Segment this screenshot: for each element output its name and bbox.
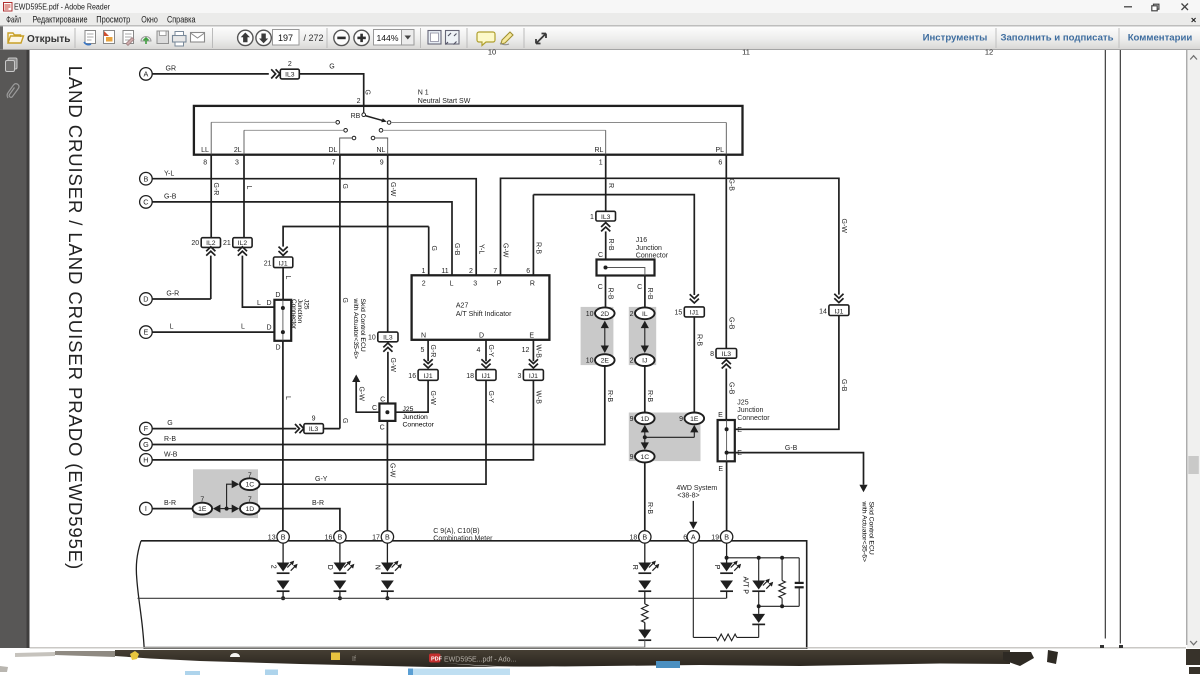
svg-text:G-R: G-R xyxy=(166,291,179,298)
svg-text:2: 2 xyxy=(422,280,426,287)
svg-text:Junction: Junction xyxy=(636,245,662,252)
indicator lamp A/T P (LED) xyxy=(758,558,760,581)
svg-text:B-R: B-R xyxy=(164,500,176,507)
arrows between IL and IJ xyxy=(641,321,649,329)
svg-text:2: 2 xyxy=(630,358,634,365)
wire R-B from IJ down to oval 1D xyxy=(644,366,646,413)
junction connector J25 (middle) body xyxy=(379,404,395,421)
svg-text:1: 1 xyxy=(590,214,594,221)
svg-text:IJ1: IJ1 xyxy=(690,310,699,317)
svg-text:Skid Control ECU: Skid Control ECU xyxy=(868,502,875,555)
svg-text:D: D xyxy=(143,295,148,304)
svg-text:G-W: G-W xyxy=(357,387,364,402)
node F connector circle xyxy=(140,422,153,435)
svg-text:W-B: W-B xyxy=(535,345,542,359)
svg-text:Connector: Connector xyxy=(403,422,435,429)
svg-text:11: 11 xyxy=(441,268,448,275)
svg-text:<38-8>: <38-8> xyxy=(677,493,699,500)
oval terminal 1D xyxy=(240,503,260,515)
svg-text:Connector: Connector xyxy=(636,252,669,259)
svg-text:B: B xyxy=(724,533,729,542)
svg-text:7: 7 xyxy=(248,472,252,479)
meter terminal 13(B) xyxy=(277,531,289,543)
switch contact NL throw xyxy=(371,136,375,140)
svg-text:Connector: Connector xyxy=(290,299,297,330)
svg-text:IL3: IL3 xyxy=(383,335,393,342)
reference text Skid Control ECU with Actuator (bottom right) xyxy=(860,501,874,562)
svg-text:RL: RL xyxy=(594,147,603,154)
svg-text:A/T P: A/T P xyxy=(742,577,749,595)
reference text Skid Control ECU with Actuator (middle left) xyxy=(352,298,366,359)
svg-text:A/T Shift Indicator: A/T Shift Indicator xyxy=(456,311,512,318)
svg-text:C: C xyxy=(637,284,642,291)
svg-text:RB: RB xyxy=(351,113,361,120)
svg-text:1E: 1E xyxy=(198,506,207,513)
svg-text:G: G xyxy=(341,184,348,189)
junction connector J16 body xyxy=(597,260,655,276)
wire G from IL3-2 to Neutral Start SW pin 2 xyxy=(299,74,363,106)
svg-text:Инструменты: Инструменты xyxy=(923,32,988,43)
svg-text:P: P xyxy=(713,565,720,570)
wire L from N1 pin 3 down to IL2 connector 21 xyxy=(243,155,245,238)
svg-text:R: R xyxy=(530,280,535,287)
svg-text:Окно: Окно xyxy=(141,14,158,24)
svg-text:L: L xyxy=(241,324,245,331)
svg-text:R-B: R-B xyxy=(646,288,653,300)
node A connector circle xyxy=(140,68,153,81)
wire G-B from J25 (right) pin E to skid control ECU reference xyxy=(727,453,864,485)
wire R-B from 1C down to combination meter 18(B) xyxy=(644,462,646,530)
svg-text:G-Y: G-Y xyxy=(487,391,494,404)
svg-text:G: G xyxy=(329,64,334,71)
wire G-Y from A27 pin 4 to IJ1 connector 18 xyxy=(485,340,487,361)
svg-text:2D: 2D xyxy=(600,311,609,318)
svg-text:G-Y: G-Y xyxy=(487,345,494,358)
svg-text:IJ1: IJ1 xyxy=(279,260,288,267)
svg-text:F: F xyxy=(144,424,149,433)
oval terminal 1D (right) xyxy=(635,413,655,425)
svg-text:9: 9 xyxy=(380,159,384,166)
junction connector IL2 pin 20 xyxy=(201,238,220,248)
svg-text:G-W: G-W xyxy=(502,243,509,258)
svg-text:12: 12 xyxy=(985,48,993,57)
svg-text:G: G xyxy=(430,246,437,251)
svg-text:R-B: R-B xyxy=(646,390,653,402)
svg-text:B: B xyxy=(385,533,390,542)
resistor in ATP subcircuit xyxy=(781,558,783,581)
svg-text:G: G xyxy=(341,418,348,423)
svg-text:GR: GR xyxy=(166,66,177,73)
junction connector IL3 pin 2 (chevrons + box) xyxy=(276,69,280,78)
svg-text:G-B: G-B xyxy=(727,382,734,395)
junction connector J25 (left) body xyxy=(274,300,291,341)
svg-text:6: 6 xyxy=(718,159,722,166)
junction connector IL2 pin 21 xyxy=(233,238,252,248)
svg-text:R-B: R-B xyxy=(646,502,653,514)
wire L from IL2-21 down to J25 junction connector pin D xyxy=(242,256,274,308)
svg-text:3: 3 xyxy=(473,280,477,287)
meter terminal 17(B) xyxy=(381,531,393,543)
svg-text:I: I xyxy=(145,504,147,513)
svg-text:L: L xyxy=(450,280,454,287)
wire R-B from A27 pin 6 up and right to IJ1 connector 15 xyxy=(533,195,694,295)
svg-text:G-W: G-W xyxy=(840,219,847,234)
page frame right border lines xyxy=(1104,50,1106,639)
svg-text:E: E xyxy=(529,333,534,340)
svg-text:R: R xyxy=(607,183,614,188)
svg-text:9: 9 xyxy=(630,416,634,423)
page bottom edge line xyxy=(30,647,1187,649)
svg-text:E: E xyxy=(737,427,742,434)
svg-text:P: P xyxy=(497,280,502,287)
svg-text:N 1: N 1 xyxy=(418,90,429,97)
svg-text:A: A xyxy=(144,70,149,79)
svg-text:5: 5 xyxy=(420,347,424,354)
wire G-W from A27 pin 7 up right and down to IJ1 connector 14 xyxy=(501,178,839,294)
svg-text:4WD System: 4WD System xyxy=(676,485,717,492)
svg-text:Файл: Файл xyxy=(6,14,21,24)
svg-text:IJ1: IJ1 xyxy=(529,373,538,380)
svg-text:18: 18 xyxy=(630,535,638,542)
shaded block behind ovals 2D 2E xyxy=(581,307,614,365)
svg-text:N: N xyxy=(374,565,381,570)
svg-text:18: 18 xyxy=(466,373,474,380)
svg-text:1D: 1D xyxy=(245,506,254,513)
ECU A27 A/T Shift Indicator box xyxy=(412,275,550,340)
svg-text:IJ1: IJ1 xyxy=(424,373,433,380)
meter terminal 16(B) xyxy=(334,531,346,543)
svg-text:Комментарии: Комментарии xyxy=(1128,32,1193,43)
svg-text:Skid Control ECU: Skid Control ECU xyxy=(359,299,366,352)
svg-text:19: 19 xyxy=(711,535,719,542)
wire E from J25 (right) down to combination meter 19(B) xyxy=(726,461,728,530)
indicator lamp 2 (LED chain from 13B) xyxy=(282,543,284,562)
svg-text:1: 1 xyxy=(599,159,603,166)
indicator lamp P (LED chain from 19B) xyxy=(726,543,728,558)
svg-text:A27: A27 xyxy=(456,303,469,310)
svg-text:IL3: IL3 xyxy=(285,72,295,79)
svg-text:J25: J25 xyxy=(403,406,414,413)
svg-text:PL: PL xyxy=(715,147,724,154)
svg-text:E: E xyxy=(737,450,742,457)
svg-text:6: 6 xyxy=(683,535,687,542)
svg-text:D: D xyxy=(326,565,333,570)
svg-text:N: N xyxy=(421,333,426,340)
junction connector IL3 pin 9 xyxy=(299,424,303,433)
oval terminal 1E xyxy=(193,503,213,515)
svg-text:C: C xyxy=(143,198,148,207)
svg-text:1C: 1C xyxy=(245,482,254,489)
svg-text:L: L xyxy=(245,186,252,190)
svg-text:10: 10 xyxy=(586,358,594,365)
svg-text:D: D xyxy=(276,345,281,352)
svg-text:R-B: R-B xyxy=(606,390,613,402)
svg-text:16: 16 xyxy=(408,373,416,380)
svg-text:Заполнить и подписать: Заполнить и подписать xyxy=(1000,32,1113,43)
wire R-B from G to oval 2E xyxy=(152,366,605,445)
svg-text:L: L xyxy=(170,324,174,331)
svg-text:9: 9 xyxy=(630,454,634,461)
junction connector IL3 pin 10 xyxy=(378,332,398,342)
shaded block behind ovals IL IJ xyxy=(629,307,656,365)
wire from 6(A) to ATP branch with resistor xyxy=(692,543,694,637)
svg-text:IJ1: IJ1 xyxy=(481,373,490,380)
ATP subcircuit top rail xyxy=(727,557,800,559)
svg-text:B-R: B-R xyxy=(312,500,324,507)
junction connector IJ1 pin 18 xyxy=(476,370,496,381)
node I connector circle xyxy=(140,502,153,515)
svg-text:NL: NL xyxy=(376,147,385,154)
resistor in R lamp branch xyxy=(642,604,649,623)
wire R-B from IL3-1 down to J16 xyxy=(605,231,607,259)
svg-text:10: 10 xyxy=(368,335,376,342)
svg-text:14: 14 xyxy=(819,308,827,315)
svg-text:E: E xyxy=(144,328,149,337)
svg-text:13: 13 xyxy=(268,535,276,542)
svg-text:1C: 1C xyxy=(640,454,649,461)
svg-text:L: L xyxy=(284,276,291,280)
svg-text:B: B xyxy=(144,174,149,183)
svg-text:C: C xyxy=(598,284,603,291)
svg-text:G: G xyxy=(143,440,149,449)
svg-text:W-B: W-B xyxy=(535,391,542,405)
wire R-B vertical from A27 pin 6 xyxy=(532,195,534,276)
svg-text:C: C xyxy=(372,405,377,412)
svg-text:E: E xyxy=(718,466,723,473)
diode in R lamp branch xyxy=(644,623,646,630)
svg-text:G-W: G-W xyxy=(389,463,396,478)
windows taskbar (smudged) xyxy=(0,649,1200,675)
svg-text:1: 1 xyxy=(421,268,425,275)
svg-text:9: 9 xyxy=(679,416,683,423)
svg-text:R-B: R-B xyxy=(607,239,614,251)
svg-text:G-W: G-W xyxy=(429,391,436,406)
svg-text:L: L xyxy=(284,396,291,400)
svg-text:21: 21 xyxy=(264,260,272,267)
wire GR from A to IL3 connector 2 xyxy=(152,73,269,75)
wire G from A27 pin 1 up xyxy=(428,227,430,276)
junction connector IL3 pin 1 xyxy=(596,211,616,221)
svg-text:21: 21 xyxy=(223,240,231,247)
svg-text:DL: DL xyxy=(328,147,337,154)
svg-text:EWD595E.pdf - Adobe Reader: EWD595E.pdf - Adobe Reader xyxy=(14,2,110,11)
svg-text:Просмотр: Просмотр xyxy=(96,14,130,24)
svg-text:2: 2 xyxy=(357,98,361,105)
svg-text:G-W: G-W xyxy=(389,182,396,197)
svg-text:IL3: IL3 xyxy=(309,426,319,433)
svg-text:10: 10 xyxy=(488,48,496,57)
oval terminal 2E xyxy=(595,354,615,366)
wire G from IL3-9 joining N1 pin 7 wire xyxy=(323,428,340,430)
meter terminal 6(A) xyxy=(687,531,699,543)
node B connector circle xyxy=(140,172,153,185)
junction connector IL3 pin 8 xyxy=(716,349,737,359)
svg-text:2: 2 xyxy=(288,61,292,68)
switch contact LL throw xyxy=(336,121,340,125)
indicator lamp D (LED chain from 16B) xyxy=(339,543,341,562)
svg-text:Y-L: Y-L xyxy=(164,170,174,177)
switch contact 2L throw xyxy=(344,129,348,133)
svg-text:G-B: G-B xyxy=(840,379,847,392)
svg-text:C: C xyxy=(598,252,603,259)
switch N1 Neutral Start SW outline xyxy=(194,106,743,155)
junction connector J25 (right) body xyxy=(718,420,735,461)
svg-text:with Actuator<35-6>: with Actuator<35-6> xyxy=(352,298,359,359)
svg-text:G-B: G-B xyxy=(164,194,177,201)
node G connector circle xyxy=(140,438,153,451)
wire Y-L from B to A27 pin 2 xyxy=(152,179,476,276)
return wire from R branch diode to meter left xyxy=(144,640,645,647)
wire G-W from J25 (middle) left pin C up to skid control ECU reference xyxy=(356,382,379,412)
wire G-B from IJ1-14 down then left to J25 (right) pin E xyxy=(735,316,839,430)
wire G from N1 pin 7 down to IL3 connector 9 junction xyxy=(339,155,341,429)
svg-text:2L: 2L xyxy=(234,147,242,154)
meter terminal 19(B) xyxy=(720,531,732,543)
indicator lamp R (LED chain from 18B) with resistor and diode xyxy=(644,543,646,562)
svg-text:LAND CRUISER / LAND CRUISER PR: LAND CRUISER / LAND CRUISER PRADO (EWD59… xyxy=(65,66,86,570)
wire W-B from IJ1-3 down then left to node H xyxy=(152,380,533,460)
wire R-B from J16 pin C down to oval 2D xyxy=(605,276,607,308)
svg-text:G-B: G-B xyxy=(727,317,734,330)
svg-text:A: A xyxy=(691,533,696,542)
svg-text:B: B xyxy=(642,533,647,542)
switch contact DL throw xyxy=(352,136,356,140)
svg-text:1D: 1D xyxy=(640,416,649,423)
svg-text:10: 10 xyxy=(586,311,594,318)
oval terminal 1C xyxy=(240,478,260,490)
svg-text:G-Y: G-Y xyxy=(315,476,328,483)
wire G-B from N1 pin 6 down to IL3 connector 8 xyxy=(725,155,727,349)
wire G-Y from IJ1-18 down then left to oval 1C xyxy=(260,380,486,484)
wire R-B from IJ1-15 down to oval 1E xyxy=(693,317,695,413)
wire G from F to IL3 connector 9 xyxy=(152,428,296,430)
svg-text:G-B: G-B xyxy=(453,243,460,256)
capacitor in ATP subcircuit xyxy=(798,558,800,582)
wire G-B from C to A27 pin 11 xyxy=(152,202,452,275)
junction between 1E 1D 1C with arrows xyxy=(213,505,221,513)
svg-text:G: G xyxy=(167,420,172,427)
svg-text:Connector: Connector xyxy=(737,415,770,422)
svg-text:G-W: G-W xyxy=(389,358,396,373)
svg-text:17: 17 xyxy=(372,535,380,542)
svg-text:3: 3 xyxy=(235,159,239,166)
svg-text:H: H xyxy=(143,456,148,465)
svg-text:Y-L: Y-L xyxy=(477,244,484,254)
oval terminal 1C (right) xyxy=(635,451,655,463)
node C connector circle xyxy=(140,196,153,209)
wire G-W from IJ1-16 down then left to J25 junction (middle) right pin C xyxy=(395,380,428,412)
svg-text:4: 4 xyxy=(476,347,480,354)
svg-text:L: L xyxy=(257,300,261,307)
wire B-R from I to oval 1E xyxy=(152,508,192,510)
svg-text:J16: J16 xyxy=(636,237,647,244)
wire G-W from J25 (middle) down to combination meter 17(B) xyxy=(386,421,388,531)
svg-text:7: 7 xyxy=(200,497,204,504)
svg-text:G-R: G-R xyxy=(429,345,436,358)
common bus wire inside meter xyxy=(138,597,727,599)
junction of 1D 1E 1C with arrows xyxy=(641,425,649,433)
svg-text:PDF: PDF xyxy=(431,657,443,663)
wire G-W from IL3-10 down to J25 junction (middle) xyxy=(387,352,389,404)
svg-text:IL3: IL3 xyxy=(722,351,732,358)
node D connector circle xyxy=(140,293,153,306)
switch contact RL throw xyxy=(379,129,383,133)
switch contact PL throw xyxy=(387,121,391,125)
wire G horizontal from A27 pin 1 to IJ1 connector 21 xyxy=(283,227,429,247)
wire G-R from D to IL2-20 xyxy=(152,298,211,300)
svg-text:12: 12 xyxy=(522,347,530,354)
junction connector IJ1 pin 15 xyxy=(690,299,699,303)
svg-text:R-B: R-B xyxy=(607,288,614,300)
svg-text:with Actuator<35-6>: with Actuator<35-6> xyxy=(860,501,867,562)
svg-text:R-B: R-B xyxy=(164,436,176,443)
svg-text:2: 2 xyxy=(469,268,473,275)
ATP subcircuit bottom rail xyxy=(759,605,800,607)
svg-text:6: 6 xyxy=(526,268,530,275)
svg-text:15: 15 xyxy=(675,310,683,317)
svg-text:J25: J25 xyxy=(737,399,748,406)
svg-text:3: 3 xyxy=(517,373,521,380)
wire L from E to J25 left pin D xyxy=(152,331,274,333)
svg-text:G: G xyxy=(364,90,371,95)
oval terminal 2D xyxy=(595,307,615,319)
svg-text:2: 2 xyxy=(269,565,276,569)
svg-text:7: 7 xyxy=(332,159,336,166)
svg-text:Junction: Junction xyxy=(403,414,429,421)
svg-text:Открыть: Открыть xyxy=(27,34,70,45)
wire B-R from 1D to combination meter 16(B) xyxy=(260,509,340,531)
wire W-B from A27 pin 12 to IJ1 connector 3 xyxy=(532,340,534,361)
meter terminal 18(B) xyxy=(639,531,651,543)
shaded block behind ovals 1D 1E 1C xyxy=(629,413,701,462)
node H connector circle xyxy=(140,454,153,467)
svg-text:144%: 144% xyxy=(377,33,399,43)
svg-text:IL: IL xyxy=(642,311,648,318)
svg-text:D: D xyxy=(267,300,272,307)
svg-text:Neutral Start SW: Neutral Start SW xyxy=(418,98,471,105)
indicator lamp N (LED chain from 17B) xyxy=(386,543,388,562)
svg-text:R-B: R-B xyxy=(535,242,542,254)
svg-text:16: 16 xyxy=(325,535,333,542)
svg-text:D: D xyxy=(275,292,280,299)
oval terminal IL xyxy=(635,307,655,319)
svg-text:IL3: IL3 xyxy=(601,214,611,221)
svg-text:EWD595E...pdf - Ado...: EWD595E...pdf - Ado... xyxy=(444,657,516,664)
wire G-R from N1 pin 8 down to IL2 connector 20 xyxy=(210,155,212,238)
wire L from J25 left pin D down to combination meter 13(B) xyxy=(282,341,284,531)
arrows between 2D and 2E xyxy=(601,321,609,329)
wire L from IJ1-21 down to J25 junction connector top pin D xyxy=(282,268,284,300)
svg-text:9: 9 xyxy=(312,416,316,423)
svg-text:1E: 1E xyxy=(690,416,699,423)
junction connector IJ1 pin 21 xyxy=(279,251,288,255)
junction connector IJ1 pin 16 xyxy=(418,370,438,381)
svg-text:D: D xyxy=(267,325,272,332)
svg-text:IJ1: IJ1 xyxy=(834,308,843,315)
svg-text:G-R: G-R xyxy=(212,183,219,196)
svg-text:G-B: G-B xyxy=(727,179,734,192)
svg-text:197: 197 xyxy=(278,33,293,43)
wire G-R from A27 pin 5 to IJ1 connector 16 xyxy=(427,340,429,361)
oval terminal IJ xyxy=(635,354,655,366)
svg-text:7: 7 xyxy=(248,497,252,504)
diode below ATP lamp xyxy=(758,606,760,614)
svg-text:/ 272: / 272 xyxy=(304,33,324,43)
node E connector circle xyxy=(140,326,153,339)
svg-text:IJ: IJ xyxy=(642,358,647,365)
svg-text:R: R xyxy=(631,565,638,570)
svg-text:E: E xyxy=(718,412,723,419)
